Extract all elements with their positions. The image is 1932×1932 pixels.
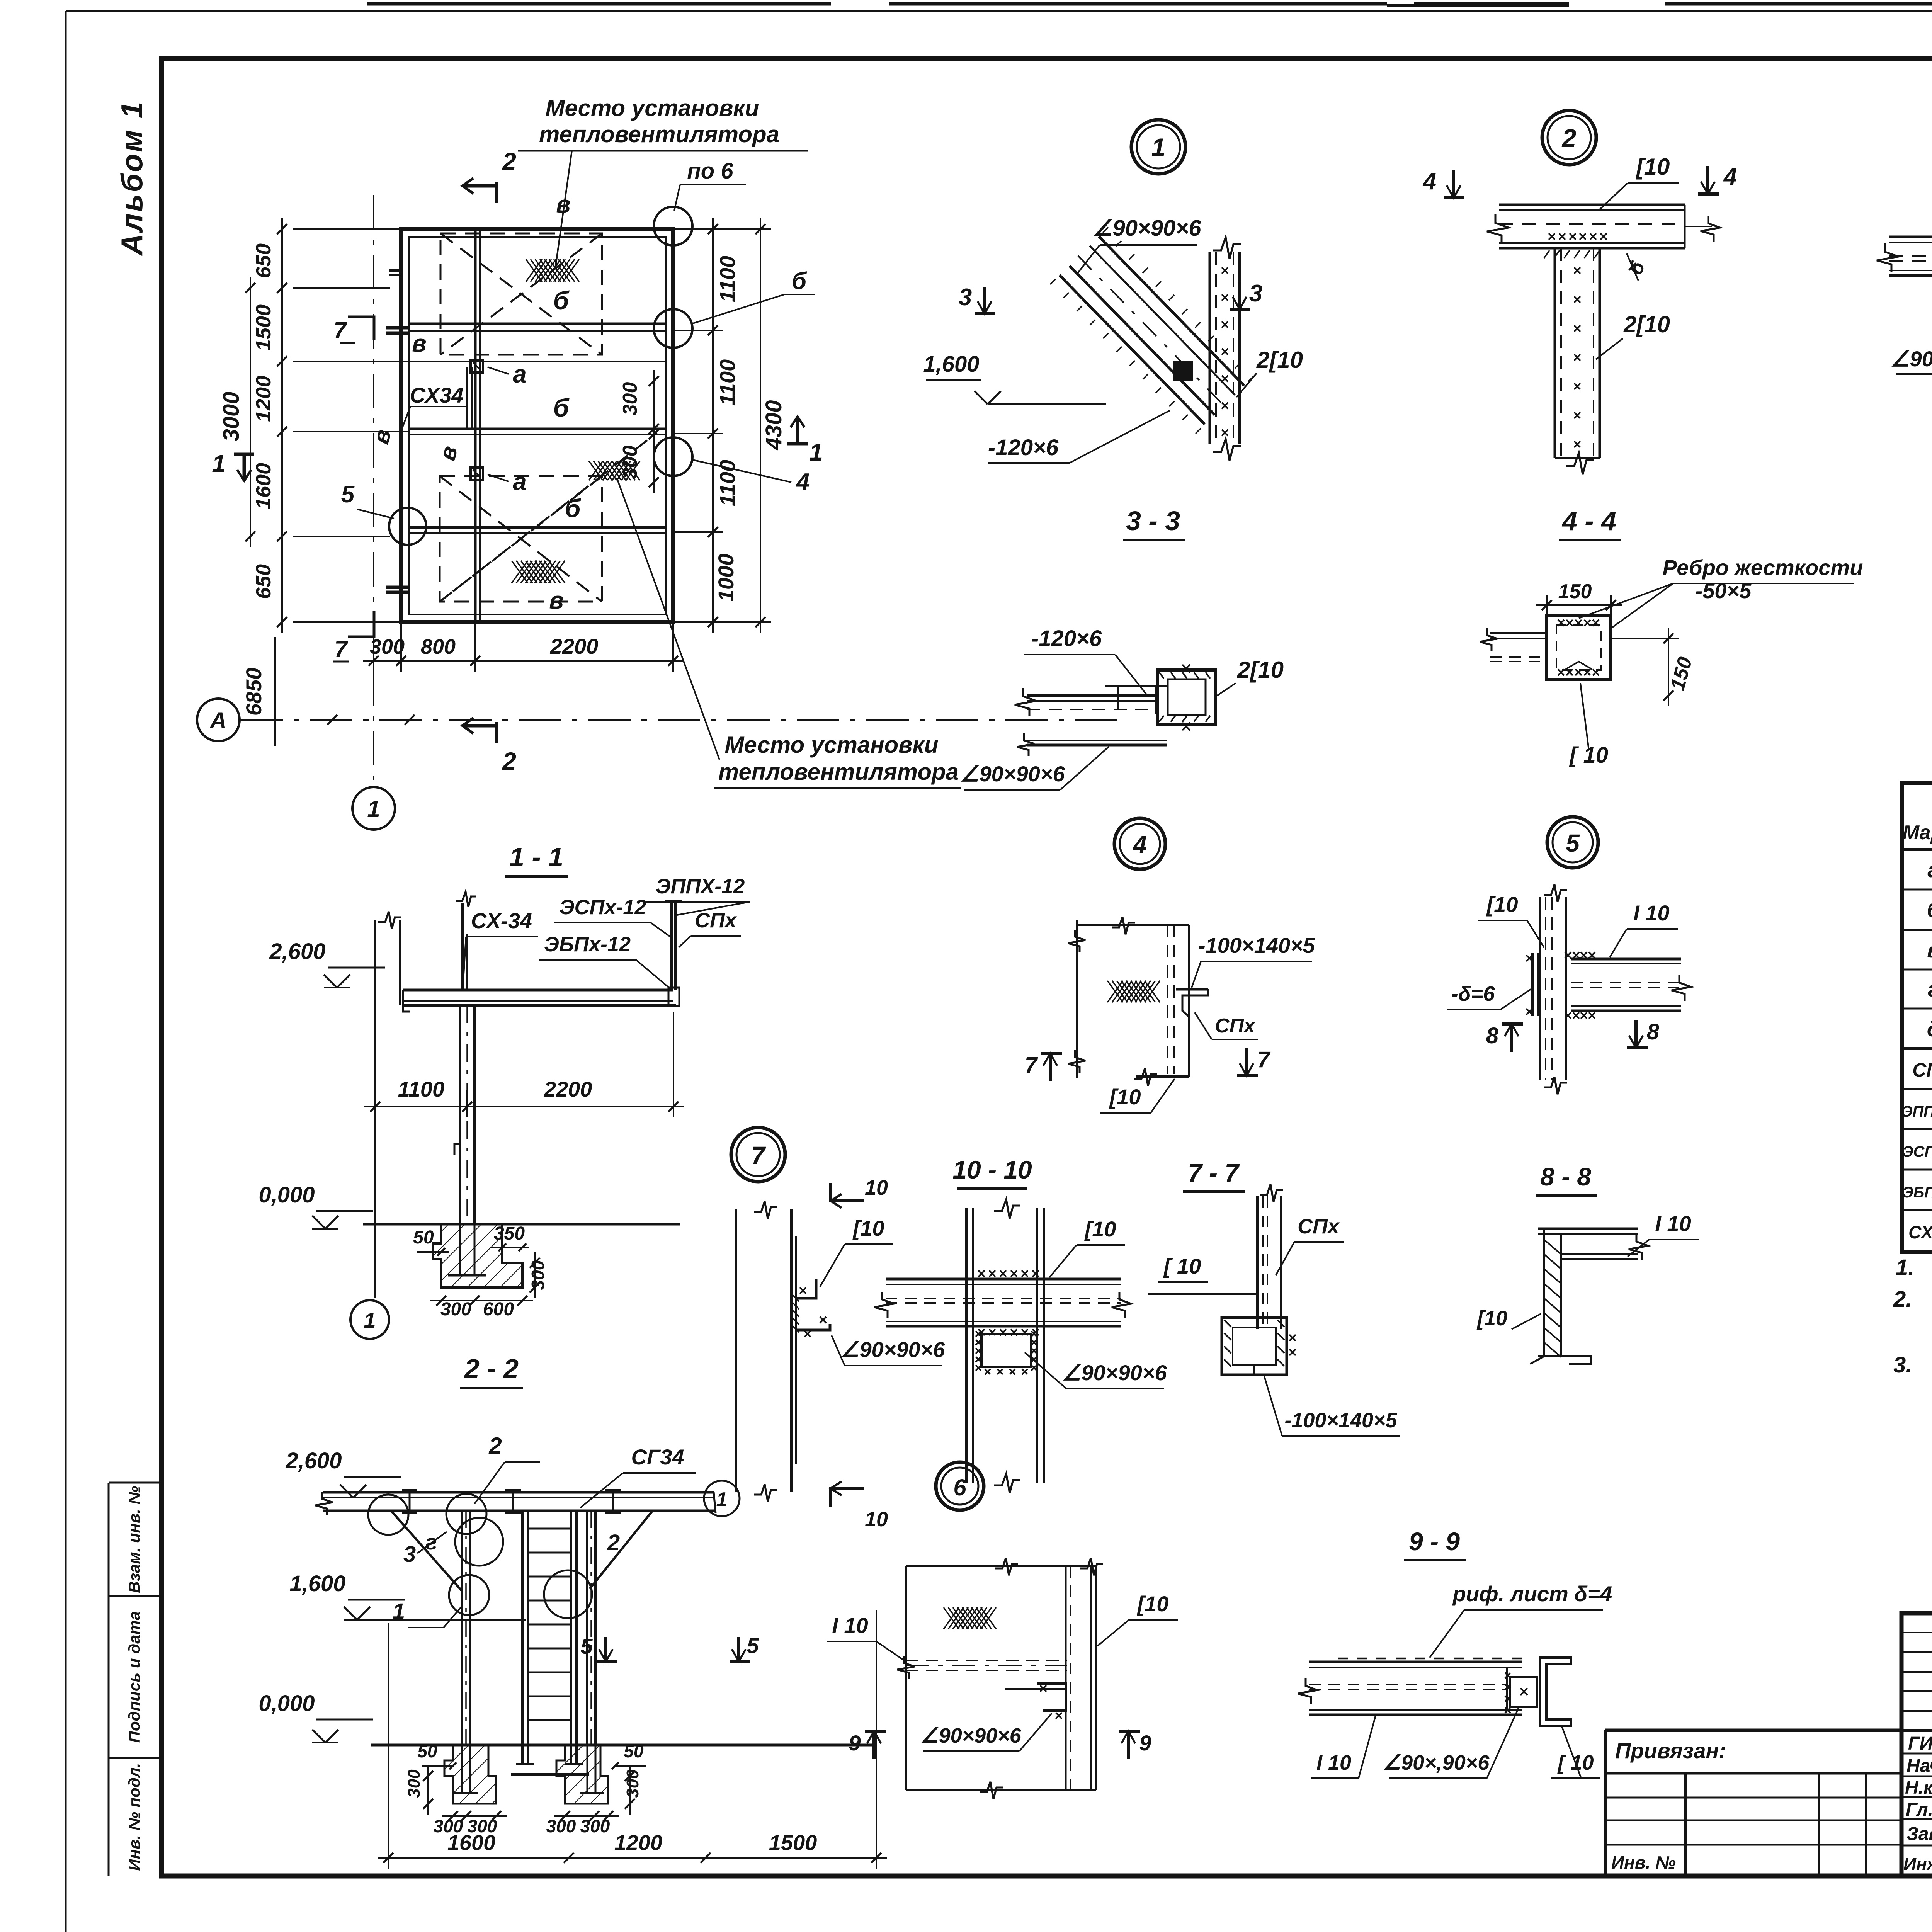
detail circle 4 — [1114, 818, 1165, 869]
plan: right dim line 4300 — [760, 218, 761, 633]
plan: left dim 3000 — [250, 277, 251, 547]
svg-text:650: 650 — [252, 564, 275, 599]
svg-text:8: 8 — [1486, 1023, 1499, 1048]
svg-text:1100: 1100 — [398, 1077, 444, 1101]
svg-text:б: б — [565, 494, 582, 522]
view 7-7: post СПх — [1256, 1196, 1259, 1329]
detail circle 7 — [731, 1128, 785, 1182]
svg-text:[10: [10 — [1636, 154, 1670, 180]
section 2-2: column anchors in footings — [461, 1745, 463, 1793]
svg-text:8 - 8: 8 - 8 — [1540, 1162, 1591, 1191]
svg-text:2.: 2. — [1893, 1287, 1912, 1312]
section 3-3: gusset plate and angle — [1027, 694, 1159, 697]
plan: stair СХ34 double line — [466, 367, 468, 428]
svg-text:50: 50 — [624, 1741, 644, 1761]
svg-text:д: д — [1927, 1017, 1932, 1041]
svg-text:СГ34: СГ34 — [631, 1445, 684, 1469]
plan view: outer contour — [401, 229, 673, 622]
title block small rows left — [1901, 1632, 1932, 1633]
svg-text:7: 7 — [333, 317, 347, 343]
svg-text:риф. лист δ=4: риф. лист δ=4 — [1452, 1582, 1612, 1606]
section 2-2: footings hatched — [444, 1745, 496, 1804]
section 1-1: СХ-34 rod above deck — [461, 903, 464, 990]
svg-text:а: а — [1927, 857, 1932, 882]
svg-text:5: 5 — [580, 1634, 593, 1658]
svg-text:1: 1 — [364, 1308, 376, 1332]
detail 7: section mark 10 bottom — [831, 1488, 864, 1507]
section 1-1: wall verticals — [374, 920, 376, 1224]
svg-text:Инв. №: Инв. № — [1611, 1852, 1676, 1872]
svg-text:50: 50 — [413, 1227, 434, 1248]
svg-text:1600: 1600 — [447, 1830, 496, 1855]
svg-text:10: 10 — [865, 1176, 888, 1199]
svg-text:600: 600 — [483, 1299, 514, 1320]
svg-text:350: 350 — [494, 1223, 525, 1244]
section 8-8: left vertical with plate — [1543, 1229, 1545, 1356]
svg-text:ЭСПх-12: ЭСПх-12 — [1902, 1143, 1932, 1160]
svg-text:1500: 1500 — [252, 304, 275, 351]
svg-text:Н.контр.: Н.контр. — [1905, 1777, 1932, 1798]
svg-text:9 - 9: 9 - 9 — [1409, 1527, 1460, 1556]
detail 4: hatch patch — [1107, 981, 1160, 1002]
svg-text:Привязан:: Привязан: — [1615, 1738, 1726, 1763]
svg-text:2: 2 — [1561, 124, 1577, 152]
view 10-10: column — [965, 1208, 968, 1483]
svg-text:1100: 1100 — [715, 256, 740, 302]
detail 5: weld marks — [1565, 952, 1571, 958]
svg-text:1.: 1. — [1896, 1255, 1914, 1280]
plan: section mark 7 upper — [348, 317, 374, 340]
section 1-1: platform deck — [403, 989, 673, 992]
svg-text:4300: 4300 — [761, 400, 786, 450]
detail circle 2 — [1542, 111, 1596, 165]
detail 1: brace weld ticks — [1050, 279, 1056, 284]
svg-text:[10: [10 — [1109, 1085, 1141, 1109]
svg-text:5: 5 — [341, 481, 355, 508]
svg-text:СХ-34: СХ-34 — [471, 908, 532, 933]
section 2-2: columns — [461, 1511, 463, 1745]
svg-text:2200: 2200 — [550, 634, 599, 658]
svg-text:2: 2 — [502, 747, 516, 775]
plan: axis line x (to axis circle 1) — [373, 195, 374, 785]
svg-text:2: 2 — [488, 1433, 502, 1459]
svg-text:7: 7 — [1025, 1053, 1038, 1078]
svg-text:1100: 1100 — [715, 359, 740, 406]
svg-text:г: г — [1928, 977, 1932, 1001]
detail 6: angle bracket — [1037, 1684, 1066, 1711]
svg-text:300: 300 — [546, 1816, 576, 1836]
detail 5: plate -δ=6 — [1531, 953, 1534, 1016]
svg-text:-50×5: -50×5 — [1696, 578, 1752, 603]
svg-text:3 - 3: 3 - 3 — [1126, 506, 1180, 536]
plan: dashed brace rectangle top with X — [440, 233, 602, 355]
svg-text:тепловентилятора: тепловентилятора — [539, 121, 779, 147]
svg-text:3.: 3. — [1893, 1352, 1912, 1378]
section 2-2: circles on nodes — [455, 1518, 503, 1566]
svg-text:-δ=6: -δ=6 — [1451, 982, 1495, 1005]
svg-text:ЭСПх-12: ЭСПх-12 — [560, 896, 646, 919]
svg-text:1200: 1200 — [614, 1830, 663, 1855]
svg-text:1: 1 — [1151, 133, 1166, 162]
section 4-4: right dim 150 — [1668, 628, 1669, 706]
svg-text:[ 10: [ 10 — [1163, 1254, 1201, 1278]
svg-text:I 10: I 10 — [1655, 1211, 1691, 1236]
svg-text:4: 4 — [1132, 831, 1147, 859]
detail 2: weld marks at joint — [1549, 233, 1555, 240]
svg-text:Место установки: Место установки — [725, 732, 939, 758]
plan: circle 4 right edge — [654, 437, 692, 476]
svg-text:ЭППХ-12: ЭППХ-12 — [656, 875, 745, 898]
plan: node square a (upper) — [471, 360, 483, 372]
svg-text:300: 300 — [370, 635, 405, 658]
plan: interior horizontal beams — [409, 323, 666, 325]
detail circle 1 — [1131, 120, 1185, 174]
Привязан table — [1605, 1729, 1901, 1732]
svg-text:[10: [10 — [1476, 1307, 1507, 1330]
section 1-1: axis circle 1 — [374, 1224, 376, 1298]
svg-text:7 - 7: 7 - 7 — [1188, 1158, 1240, 1187]
svg-text:ЭППХ-12: ЭППХ-12 — [1901, 1103, 1932, 1120]
plan: axis line A horizontal — [240, 719, 1121, 721]
svg-text:2[10: 2[10 — [1623, 311, 1670, 337]
table: outer frame — [1902, 783, 1932, 1252]
svg-text:0,000: 0,000 — [259, 1182, 315, 1207]
svg-text:300: 300 — [580, 1816, 610, 1836]
svg-text:7: 7 — [334, 636, 348, 662]
svg-text:2: 2 — [607, 1530, 620, 1555]
svg-text:1: 1 — [367, 796, 380, 822]
svg-text:[10: [10 — [1137, 1592, 1169, 1616]
svg-text:1: 1 — [212, 450, 226, 478]
svg-text:Взам. инв. №: Взам. инв. № — [125, 1486, 143, 1593]
svg-text:I 10: I 10 — [832, 1613, 868, 1638]
detail 4: wall column lines — [1076, 920, 1078, 1078]
plan: section mark 2 bottom — [495, 722, 498, 743]
svg-text:∠90×90×6: ∠90×90×6 — [960, 762, 1065, 786]
svg-text:9: 9 — [849, 1731, 861, 1755]
svg-text:650: 650 — [252, 243, 275, 278]
svg-text:Инв. № подл.: Инв. № подл. — [125, 1763, 143, 1871]
svg-text:2[10: 2[10 — [1256, 347, 1303, 373]
svg-text:Зав. гр.: Зав. гр. — [1906, 1824, 1932, 1844]
svg-text:Подпись и дата: Подпись и дата — [125, 1611, 143, 1743]
detail 2: horizontal beam [10 — [1499, 204, 1685, 206]
section 2-2: diagonal braces — [392, 1512, 462, 1591]
svg-text:в: в — [1927, 938, 1932, 962]
svg-text:10 - 10: 10 - 10 — [952, 1155, 1032, 1184]
left margin boxes: Взам.инв.№ / Подпись и дата / Инв.№ подл. — [109, 1482, 162, 1484]
svg-text:ЭБПх-12: ЭБПх-12 — [1902, 1184, 1932, 1201]
detail 5: column lines — [1539, 897, 1541, 1080]
plan: interior vertical beam — [474, 229, 477, 622]
svg-text:[10: [10 — [1486, 892, 1518, 917]
section 2-2: platform deck — [323, 1491, 714, 1494]
view 9-9: right channel connection — [1506, 1667, 1508, 1710]
svg-text:СХ34: СХ34 — [410, 383, 463, 407]
svg-text:СХ-34: СХ-34 — [1908, 1222, 1932, 1242]
svg-text:0,000: 0,000 — [259, 1691, 315, 1716]
svg-text:а: а — [513, 360, 527, 388]
svg-text:1 - 1: 1 - 1 — [509, 842, 563, 872]
svg-text:3: 3 — [403, 1542, 416, 1567]
detail 6: hidden I-beam lines — [906, 1660, 1067, 1661]
plan: axis circle A — [197, 699, 240, 741]
plan: axis circle 1 — [352, 787, 395, 830]
svg-text:∠90×90×6: ∠90×90×6 — [840, 1337, 945, 1362]
svg-text:в: в — [549, 587, 563, 614]
view 9-9: chequer plate on top — [1338, 1658, 1348, 1660]
svg-text:7: 7 — [1257, 1047, 1271, 1072]
svg-text:Ребро жесткости: Ребро жесткости — [1663, 555, 1863, 580]
title block frame — [1901, 1613, 1932, 1876]
section 2-2: bottom dims 1600/1200/1500 — [378, 1857, 887, 1859]
svg-text:∠90×90×6: ∠90×90×6 — [1092, 216, 1201, 241]
section 1-1: footing hatched — [433, 1224, 522, 1287]
svg-text:7: 7 — [751, 1141, 766, 1169]
detail circle 6 — [936, 1462, 984, 1510]
svg-text:1,600: 1,600 — [923, 352, 979, 377]
svg-text:4: 4 — [796, 469, 810, 495]
svg-text:50: 50 — [417, 1741, 437, 1761]
svg-text:1,600: 1,600 — [289, 1571, 345, 1596]
plan: section mark 7 lower — [348, 611, 374, 637]
section 2-2: ladder СХ-34 — [521, 1511, 524, 1764]
svg-text:тепловентилятора: тепловентилятора — [718, 759, 959, 785]
plan: circle callout 5 on left edge — [389, 508, 426, 545]
svg-text:150: 150 — [1558, 580, 1592, 603]
detail 1: channel break marks — [1213, 237, 1241, 259]
svg-text:5: 5 — [1566, 829, 1580, 857]
detail 5: beam I10 from right — [1571, 958, 1681, 961]
view 9-9: deck I-beam side view — [1309, 1661, 1522, 1663]
plan: circle б right edge — [654, 309, 692, 348]
section 2-2: ground line — [371, 1744, 872, 1747]
svg-text:б: б — [553, 393, 570, 422]
svg-text:Место установки: Место установки — [546, 95, 759, 121]
svg-text:Нач.отд.: Нач.отд. — [1906, 1756, 1932, 1776]
detail 7: section mark 10 top — [831, 1183, 864, 1201]
section 1-1: ground line — [363, 1223, 680, 1226]
svg-text:-120×6: -120×6 — [988, 435, 1059, 460]
svg-text:ЭБПх-12: ЭБПх-12 — [544, 933, 631, 956]
svg-text:-120×6: -120×6 — [1031, 626, 1102, 651]
svg-text:4: 4 — [1723, 163, 1737, 190]
svg-text:2,600: 2,600 — [269, 939, 325, 964]
detail 1: vertical channel 2[10 — [1209, 252, 1211, 444]
section 8-8: beam flange — [1538, 1228, 1638, 1230]
plan: left edge pipe stubs — [389, 269, 402, 272]
plan: node square a (lower) — [471, 468, 483, 480]
svg-text:в: в — [412, 330, 426, 357]
svg-text:3000: 3000 — [219, 391, 244, 441]
svg-text:2: 2 — [502, 148, 516, 175]
plan: left dim line 650/1500/1200/1600/650 — [281, 218, 283, 633]
svg-text:а: а — [513, 468, 527, 495]
svg-text:г: г — [425, 1530, 437, 1554]
section 2-2: deck circles — [368, 1495, 408, 1535]
svg-text:∠90×,90×6: ∠90×,90×6 — [1383, 1751, 1490, 1774]
section 1-1: ladder below deck — [459, 1005, 461, 1224]
svg-text:2[10: 2[10 — [1237, 657, 1284, 683]
svg-text:6: 6 — [953, 1475, 966, 1500]
view 10-10: welded box below beam — [981, 1334, 1031, 1367]
svg-text:3: 3 — [1249, 280, 1262, 307]
svg-text:2200: 2200 — [544, 1077, 592, 1101]
svg-text:4 - 4: 4 - 4 — [1561, 506, 1616, 536]
outer thin border — [66, 10, 1932, 12]
svg-text:СПх: СПх — [1298, 1215, 1340, 1238]
plan: bottom dim 300/800/2200 — [363, 660, 684, 662]
detail 6: corner column — [1065, 1566, 1067, 1790]
svg-text:9: 9 — [1139, 1731, 1151, 1755]
svg-text:[10: [10 — [1084, 1217, 1116, 1241]
svg-text:Марка: Марка — [1903, 821, 1932, 844]
detail circle 5 — [1547, 817, 1598, 868]
view 10-10: beam through — [886, 1278, 1121, 1281]
svg-text:2 - 2: 2 - 2 — [464, 1354, 519, 1384]
svg-text:300: 300 — [405, 1769, 423, 1798]
svg-text:СПх: СПх — [1215, 1015, 1256, 1037]
section 4-4: beam from left — [1490, 632, 1547, 634]
svg-text:1100: 1100 — [715, 460, 740, 506]
svg-text:6850: 6850 — [241, 668, 266, 716]
detail 1: diagonal brace 2 angles — [1060, 275, 1205, 424]
section 3-3: channel box section 2[10 — [1158, 670, 1216, 724]
svg-text:8: 8 — [1647, 1019, 1660, 1044]
detail 1: gusset small square — [1175, 362, 1192, 379]
svg-text:-100×140×5: -100×140×5 — [1198, 933, 1315, 957]
svg-text:-100×140×5: -100×140×5 — [1284, 1409, 1397, 1432]
section 2-2: callout circle 1 right — [704, 1481, 740, 1516]
detail 6: panel outline — [905, 1566, 907, 1790]
view 7-7: horizontal line [10 level — [1148, 1293, 1259, 1295]
svg-text:10: 10 — [865, 1508, 888, 1531]
plan: right dim line 1100/1100/1100/1000 — [712, 218, 714, 633]
svg-text:3: 3 — [959, 284, 972, 311]
svg-text:∠90×90×6: ∠90×90×6 — [920, 1724, 1022, 1747]
svg-text:300: 300 — [440, 1299, 471, 1320]
svg-text:1: 1 — [716, 1488, 728, 1511]
section 1-1: dim 1100 / 2200 — [364, 1106, 684, 1107]
svg-text:∠90×90×6: ∠90×90×6 — [1062, 1361, 1167, 1385]
svg-text:по 6: по 6 — [687, 158, 733, 184]
svg-text:300: 300 — [619, 382, 641, 416]
svg-text:5: 5 — [747, 1633, 759, 1658]
section 2-2: deck I-beam symbols — [402, 1489, 417, 1491]
svg-text:Инж.Iкат: Инж.Iкат — [1903, 1854, 1932, 1874]
svg-text:2,600: 2,600 — [285, 1448, 342, 1473]
view 10-10: weld marks above beam — [978, 1270, 985, 1277]
view 7-7: channel box at bottom — [1222, 1318, 1287, 1375]
scan artifact: dark dashes along top edge — [367, 2, 831, 6]
svg-text:ГИП: ГИП — [1908, 1733, 1932, 1754]
svg-text:1: 1 — [809, 438, 823, 466]
section 4-4: top dim 150 — [1536, 604, 1622, 606]
svg-text:[10: [10 — [852, 1216, 884, 1240]
plan: circle по 6 at top right corner — [654, 207, 692, 245]
svg-text:I 10: I 10 — [1633, 901, 1669, 925]
svg-text:б: б — [792, 268, 807, 294]
section 4-4: channel box with stiffeners — [1547, 616, 1611, 680]
svg-text:∠90×90×6: ∠90×90×6 — [1890, 347, 1932, 371]
svg-text:I 10: I 10 — [1316, 1751, 1351, 1774]
plan: hatch patch middle — [589, 461, 640, 480]
section 8-8: bottom angle — [1538, 1356, 1591, 1364]
detail 3: horizontal beam I10 — [1889, 236, 1932, 238]
svg-text:Гл. спец.: Гл. спец. — [1906, 1800, 1932, 1820]
svg-text:1600: 1600 — [252, 463, 275, 509]
plan: hatch patch top (heater place) — [526, 259, 579, 282]
svg-text:Альбом 1: Альбом 1 — [115, 100, 149, 256]
svg-text:б: б — [1927, 898, 1932, 922]
svg-text:1200: 1200 — [252, 376, 275, 422]
svg-text:800: 800 — [421, 635, 456, 658]
svg-text:СПх: СПх — [695, 909, 737, 932]
plan: dashed brace rectangle bottom with X — [440, 476, 602, 602]
svg-text:1500: 1500 — [769, 1830, 817, 1855]
detail 7: column lines — [735, 1209, 737, 1492]
svg-text:б: б — [553, 286, 570, 315]
svg-text:СПХ: СПХ — [1912, 1059, 1932, 1081]
svg-text:1000: 1000 — [714, 554, 738, 602]
svg-text:300: 300 — [619, 446, 641, 479]
plan: hatch patch bottom — [512, 561, 565, 583]
detail 4: seat bracket -100x140x5 — [1176, 988, 1208, 991]
svg-text:4: 4 — [1422, 168, 1436, 195]
detail 6: hatch patch — [944, 1607, 996, 1629]
detail 7: angle clip with welds — [796, 1279, 816, 1298]
detail 2: vertical column 2[10 — [1554, 248, 1556, 458]
svg-text:А: А — [209, 707, 226, 733]
section 1-1: railing post — [670, 900, 673, 990]
